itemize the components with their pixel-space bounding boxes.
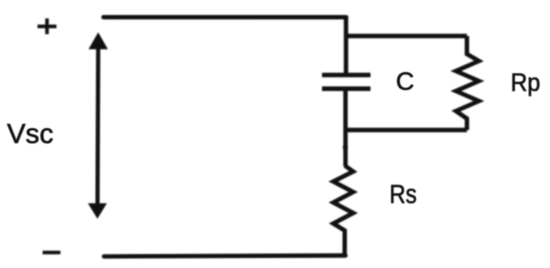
svg-text:Vsc: Vsc xyxy=(7,118,53,149)
wire top from + terminal to right corner xyxy=(104,15,347,19)
capacitor C xyxy=(322,75,371,89)
wire branch to Rp top xyxy=(346,34,467,38)
wire bottom of parallel section from Rp bottom to junction xyxy=(346,128,467,132)
wire right vertical from top corner down to capacitor top plate xyxy=(344,16,348,74)
node + terminal xyxy=(38,18,57,34)
wire capacitor bottom lead down through junction to Rs xyxy=(343,91,347,167)
svg-text:Rp: Rp xyxy=(511,70,541,97)
wire bottom from - terminal to Rs bottom xyxy=(104,253,346,258)
svg-text:C: C xyxy=(396,68,414,96)
source voltage arrow Vsc xyxy=(88,32,108,219)
resistor Rp xyxy=(456,36,479,130)
node - terminal xyxy=(43,251,61,255)
resistor Rs xyxy=(333,166,353,257)
svg-text:Rs: Rs xyxy=(390,181,417,209)
junction dot xyxy=(343,145,348,150)
